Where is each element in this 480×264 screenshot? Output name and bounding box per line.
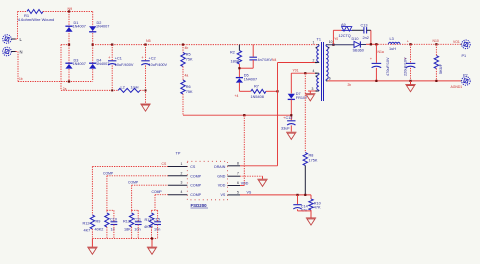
svg-text:N: N	[20, 50, 23, 55]
resistor R5 75K	[182, 45, 184, 53]
resistor R10 47K	[310, 195, 312, 199]
node N9	[68, 10, 70, 12]
svg-text:10uF/400V: 10uF/400V	[149, 63, 168, 67]
svg-text:7: 7	[237, 172, 239, 176]
svg-text:COMP: COMP	[190, 174, 201, 178]
node VS cap	[296, 194, 298, 196]
svg-text:10n: 10n	[134, 228, 140, 232]
svg-text:1b: 1b	[19, 77, 23, 81]
svg-text:1N4007: 1N4007	[96, 25, 109, 29]
wire DC+ bus	[93, 44, 317, 46]
svg-text:P1: P1	[462, 54, 467, 58]
svg-text:1N4007: 1N4007	[73, 62, 86, 66]
svg-text:1: 1	[181, 162, 183, 166]
wire drain pin row	[240, 165, 278, 167]
svg-text:C13: C13	[361, 24, 368, 28]
svg-text:COMP: COMP	[103, 171, 114, 175]
svg-text:2: 2	[313, 59, 315, 63]
svg-text:R8: R8	[309, 154, 314, 158]
capacitor C11	[137, 210, 139, 221]
capacitor C1 10uF/400V	[111, 43, 113, 45]
diode D2 1N4007	[89, 26, 96, 31]
svg-text:1N4007: 1N4007	[244, 78, 257, 82]
node bus R5 tap	[182, 43, 184, 45]
svg-text:R12: R12	[83, 222, 90, 226]
svg-text:D10: D10	[352, 37, 359, 41]
wire COMP3 pair split	[152, 209, 158, 211]
svg-text:VO1: VO1	[453, 40, 460, 44]
wire snubber to drain node	[266, 90, 278, 92]
wire aux pin4	[291, 72, 315, 74]
svg-text:R11: R11	[145, 218, 152, 222]
resistor R7 snubber	[251, 89, 266, 93]
wire RC bank bottom rail	[92, 238, 157, 240]
svg-text:10uF/400V: 10uF/400V	[115, 63, 134, 67]
svg-text:470uF/10V: 470uF/10V	[386, 57, 390, 76]
resistor R14 5K6	[435, 44, 437, 55]
svg-text:6: 6	[237, 181, 239, 185]
wire CS net	[92, 166, 168, 168]
svg-text:1N4007: 1N4007	[73, 25, 86, 29]
inductor L2 filter	[118, 88, 140, 92]
inductor L3 1uH	[389, 42, 401, 44]
node bridge DC+ out	[92, 43, 94, 45]
svg-text:4: 4	[313, 69, 315, 73]
pin 2 COMP	[168, 175, 187, 177]
wire C13 down	[367, 29, 371, 31]
capacitor C12 VDD 33uF	[290, 99, 292, 120]
svg-text:C12: C12	[286, 116, 293, 120]
svg-text:C15: C15	[153, 217, 160, 221]
resistor R2 clamp 180K	[238, 45, 240, 51]
ground primary DC-	[140, 103, 150, 105]
transformer T1 core	[321, 42, 323, 101]
diode D5 1N4007 clamp	[236, 78, 243, 82]
resistor R1	[27, 10, 43, 14]
node C5 tap	[409, 43, 411, 45]
wire AC-N jog	[61, 44, 69, 46]
svg-text:R7: R7	[254, 84, 259, 88]
wire VDD drop to pin	[243, 115, 245, 185]
svg-text:SB360: SB360	[353, 49, 364, 53]
svg-text:4n7/1KV: 4n7/1KV	[258, 58, 273, 62]
svg-text:4b: 4b	[185, 46, 189, 50]
transformer secondary winding	[326, 44, 328, 46]
svg-text:1N5408: 1N5408	[251, 95, 264, 99]
ground bank right	[151, 239, 153, 247]
wire clamp D to drain	[238, 83, 240, 92]
wire R1 to bridge	[43, 11, 93, 13]
resistor R6 75K	[181, 80, 185, 94]
svg-text:33uF: 33uF	[281, 127, 290, 131]
wire clamp R to D	[238, 64, 240, 77]
resistor R9	[106, 210, 108, 213]
svg-text:N4: N4	[272, 58, 276, 62]
wire VDD net	[183, 114, 291, 116]
resistor R13	[131, 210, 133, 213]
ground bank left	[91, 239, 93, 247]
ground output	[410, 81, 412, 84]
svg-text:3: 3	[181, 181, 183, 185]
transformer aux winding	[317, 72, 319, 74]
svg-text:AGND1: AGND1	[451, 85, 463, 89]
capacitor C3 clamp 4n7	[252, 45, 254, 57]
svg-text:1uH: 1uH	[389, 47, 396, 51]
wire vdd pin row	[240, 185, 244, 187]
wire vs pin row	[240, 194, 311, 196]
svg-text:VS: VS	[221, 193, 226, 197]
resistor R8 175K	[304, 72, 306, 74]
svg-text:CS: CS	[162, 162, 167, 166]
resistor R11	[151, 210, 153, 213]
svg-text:75K: 75K	[186, 90, 193, 94]
node R5 R6 mid	[182, 67, 184, 81]
wire R8 to VS	[304, 166, 306, 195]
wire output bottom rail	[328, 80, 461, 82]
wire clamp cap bottom	[239, 67, 253, 69]
svg-text:2b: 2b	[348, 83, 352, 87]
svg-text:5K6/F: 5K6/F	[439, 63, 443, 74]
svg-text:C11: C11	[134, 217, 141, 221]
node VS R8 join	[304, 194, 306, 196]
svg-text:L2: L2	[121, 85, 125, 89]
svg-text:+4: +4	[235, 94, 239, 98]
svg-text:+C2: +C2	[149, 57, 156, 61]
svg-text:COMP: COMP	[190, 184, 201, 188]
svg-text:40K2: 40K2	[95, 228, 104, 232]
svg-text:47K: 47K	[314, 206, 321, 210]
svg-text:R2: R2	[230, 51, 235, 55]
connector P1 VO+	[460, 43, 463, 45]
wire bridge left column	[68, 12, 70, 82]
svg-text:4.6ohm/Wire Wound: 4.6ohm/Wire Wound	[18, 17, 54, 22]
node bridge bottom	[68, 80, 70, 82]
wire COMP3 net	[155, 194, 168, 196]
svg-text:Y01: Y01	[293, 69, 299, 73]
svg-text:A9: A9	[341, 23, 346, 27]
pin 8 DRAIN	[228, 165, 241, 167]
wire R6 to VDD line	[182, 94, 184, 115]
ground VDD cap	[290, 125, 292, 131]
svg-text:175K: 175K	[309, 159, 318, 163]
svg-text:220uF/10V: 220uF/10V	[403, 57, 407, 76]
connector J2 N input	[3, 47, 12, 56]
wire bridge right column	[92, 12, 94, 82]
svg-text:R6: R6	[186, 85, 191, 89]
svg-text:L3: L3	[390, 37, 394, 41]
wire COMP1 pair	[107, 209, 114, 211]
svg-text:1mH: 1mH	[131, 85, 139, 89]
svg-text:COMP: COMP	[128, 181, 139, 185]
pin 7 GND	[228, 175, 241, 177]
svg-text:75K: 75K	[186, 57, 193, 61]
wire N down	[16, 51, 19, 53]
svg-text:3: 3	[312, 87, 314, 91]
wire AC bottom rail	[18, 81, 93, 83]
svg-text:10: 10	[329, 40, 333, 44]
svg-text:VS: VS	[247, 191, 252, 195]
svg-text:2: 2	[181, 171, 183, 175]
capacitor C10	[113, 210, 115, 221]
svg-text:1: 1	[313, 41, 315, 45]
diode D4 1N4007	[89, 64, 96, 69]
diode D7 FR107	[290, 73, 292, 93]
diode D3 1N4007	[65, 64, 72, 69]
svg-text:1N4007: 1N4007	[96, 62, 109, 66]
diode D9 dual 12CTQ	[342, 29, 353, 31]
diode D10 SB360	[354, 41, 360, 47]
diode D1 1N4007	[65, 27, 72, 32]
svg-text:180K: 180K	[231, 60, 240, 64]
connector P2 AGND	[460, 80, 463, 82]
svg-text:VDD: VDD	[241, 182, 249, 186]
svg-text:VDD: VDD	[218, 184, 226, 188]
svg-text:C10: C10	[110, 217, 117, 221]
transformer primary winding	[317, 44, 319, 46]
svg-text:R5: R5	[186, 53, 191, 57]
wire VS RC bottom	[298, 210, 312, 212]
svg-text:2n2: 2n2	[363, 36, 369, 40]
wire COMP2 pair	[132, 209, 139, 211]
node VDD drop	[243, 114, 245, 116]
connector J1 L input	[3, 35, 12, 44]
svg-text:8: 8	[237, 161, 239, 165]
svg-text:4: 4	[181, 190, 183, 194]
capacitor C4 470uF/10V	[375, 44, 377, 63]
svg-text:+C1: +C1	[115, 57, 122, 61]
svg-text:P2: P2	[463, 73, 468, 77]
op-amp U1 FSD200 box	[187, 161, 227, 200]
wire sec to D10	[328, 44, 354, 46]
wire secondary top	[332, 44, 334, 46]
wire snubber up	[332, 30, 334, 44]
svg-text:DRAIN: DRAIN	[214, 165, 226, 169]
node bridge left mid	[68, 43, 70, 45]
svg-text:4a: 4a	[185, 74, 189, 78]
wire aux pin3	[308, 90, 316, 92]
svg-text:TP: TP	[176, 152, 181, 156]
svg-text:R13: R13	[123, 220, 130, 224]
pin 4 COMP	[168, 194, 187, 196]
wire L to R1	[16, 38, 18, 40]
svg-text:CS: CS	[190, 165, 196, 169]
capacitor C14 47n	[297, 195, 299, 204]
svg-text:5: 5	[237, 190, 239, 194]
ground aux	[309, 91, 311, 93]
capacitor C13 2n2	[363, 27, 365, 33]
wire gnd pin row	[240, 175, 263, 177]
svg-text:6: 6	[329, 76, 331, 80]
svg-text:FSD200: FSD200	[191, 203, 208, 208]
svg-text:N10: N10	[433, 39, 439, 43]
svg-text:COMP: COMP	[152, 190, 163, 194]
capacitor C15	[157, 210, 159, 221]
svg-text:N5: N5	[146, 39, 151, 43]
svg-text:R9: R9	[96, 220, 101, 224]
ground VS RC	[310, 211, 312, 218]
wire drain to xfmr pin2	[278, 62, 316, 64]
wire COMP2 net	[132, 184, 168, 186]
capacitor C5 220uF/10V	[410, 44, 412, 63]
resistor R12 4K7	[90, 215, 94, 229]
wire output node	[366, 43, 378, 45]
svg-text:N9: N9	[68, 7, 73, 11]
wire COMP1 net	[107, 175, 168, 177]
svg-text:+: +	[407, 40, 409, 44]
svg-text:COMP: COMP	[190, 193, 201, 197]
node R14 tap	[435, 43, 437, 45]
pin 5 VS	[228, 194, 241, 196]
svg-text:18K: 18K	[124, 228, 131, 232]
capacitor C2 10uF/400V	[145, 45, 147, 61]
ground IC gnd	[262, 176, 264, 179]
pin 1 CS	[168, 166, 187, 168]
wire drain net	[277, 63, 279, 166]
pin 6 VDD	[228, 185, 241, 187]
svg-text:GND: GND	[217, 174, 225, 178]
svg-text:N1a: N1a	[378, 50, 384, 54]
wire diodes to C13	[352, 29, 364, 31]
svg-text:T1: T1	[317, 38, 321, 42]
node N5	[144, 43, 146, 45]
pin 3 COMP	[168, 184, 187, 186]
svg-text:4K7: 4K7	[84, 229, 91, 233]
svg-text:12CTQ: 12CTQ	[339, 34, 351, 38]
